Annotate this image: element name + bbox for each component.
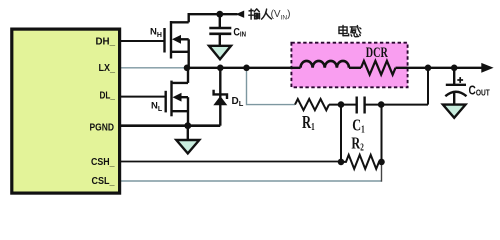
svg-text:DH_: DH_ <box>96 37 116 48</box>
svg-text:CSL_: CSL_ <box>92 176 115 187</box>
svg-text:CSH_: CSH_ <box>91 157 115 168</box>
svg-text:PGND: PGND <box>90 122 115 133</box>
svg-text:DCR: DCR <box>366 44 389 60</box>
svg-text:DL_: DL_ <box>100 91 116 102</box>
svg-text:LX_: LX_ <box>99 63 116 74</box>
svg-text:(VIN): (VIN) <box>271 9 291 22</box>
